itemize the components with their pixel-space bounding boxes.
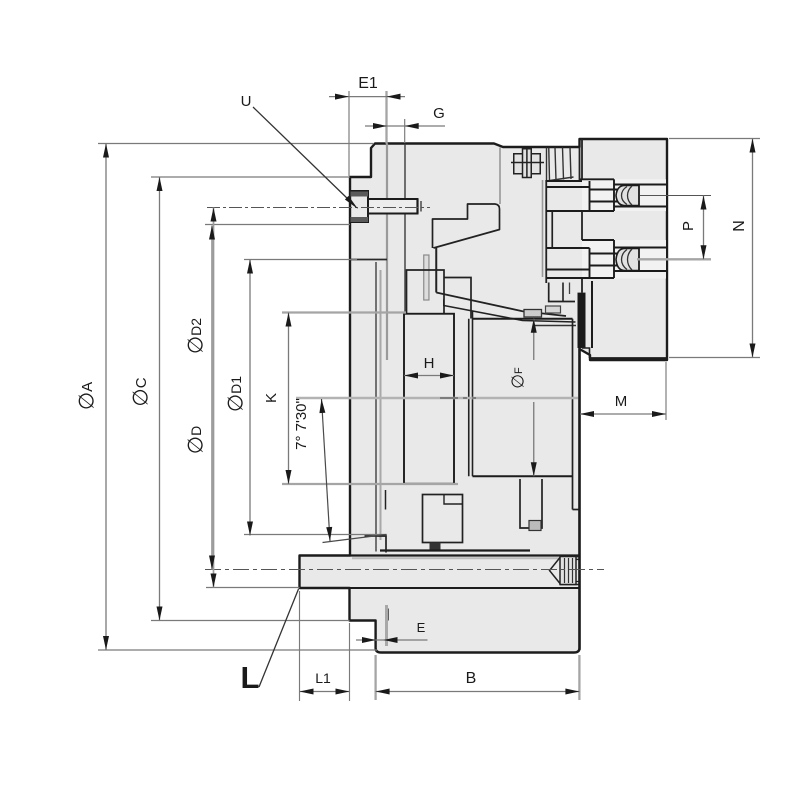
- jaw block face segments: [581, 139, 583, 179]
- gray heavy extension lines: [282, 91, 711, 700]
- svg-text:M: M: [615, 393, 628, 410]
- mount screw bore lines: [560, 556, 580, 558]
- spring pin slot: [424, 255, 429, 300]
- wedge notch upper: [433, 204, 500, 248]
- master jaw foot: [549, 283, 575, 302]
- svg-text:7° 7'30": 7° 7'30": [293, 398, 310, 450]
- lower guide rect: [423, 495, 463, 543]
- angle 7deg dim line: [322, 399, 331, 541]
- body back face inner line: [380, 549, 530, 551]
- jaw bottom step: [582, 348, 590, 358]
- front plate inner vertical line: [386, 144, 388, 361]
- serration lines top: [547, 148, 574, 182]
- grub screw cross: [511, 149, 544, 178]
- screw1 center ext: [640, 195, 711, 197]
- master jaw guide vertical: [435, 248, 437, 293]
- front hub vertical line gray: [375, 262, 377, 552]
- lower pin: [430, 543, 441, 552]
- screw U counterbore: [350, 191, 368, 222]
- wedge slant lower parallel: [444, 300, 576, 323]
- svg-text:N: N: [731, 220, 748, 232]
- mount counterbore marks: [576, 559, 580, 561]
- extension lines: [98, 91, 760, 701]
- front plate joint line: [404, 144, 406, 314]
- front joint gray line upper: [499, 148, 501, 205]
- flange center dash-dot: [205, 569, 604, 571]
- svg-text:P: P: [680, 221, 697, 231]
- chuck body silhouette: [300, 139, 668, 653]
- svg-text:∅A: ∅A: [76, 382, 99, 410]
- jaw screw 2 head: [616, 249, 639, 271]
- wedge slant upper: [436, 293, 566, 317]
- wedge small rect: [524, 310, 542, 318]
- wedge small rect 2: [546, 306, 561, 313]
- bore top edge: [473, 318, 573, 320]
- svg-text:G: G: [433, 105, 445, 122]
- jaw inner face line: [591, 281, 593, 348]
- bore right wall: [572, 319, 574, 510]
- phi D dim line: [211, 226, 213, 570]
- svg-text:B: B: [466, 670, 477, 687]
- body right face lower: [578, 347, 580, 650]
- svg-text:U: U: [241, 93, 252, 110]
- step below bore right: [573, 509, 580, 511]
- leader U: [253, 107, 350, 201]
- serrated interface bar: [578, 293, 586, 348]
- lower small rect: [520, 479, 542, 528]
- lower guide notch: [444, 495, 463, 505]
- piston H rect: [404, 314, 454, 484]
- wedge groove line: [535, 325, 576, 327]
- E gray ext bar: [385, 605, 388, 646]
- body right face upper: [579, 147, 581, 181]
- jaw channel 1 light fill: [582, 179, 666, 211]
- svg-text:E1: E1: [358, 75, 378, 92]
- master jaw base dark line: [545, 180, 547, 283]
- bore bottom edge: [473, 475, 573, 477]
- adapter bottom line: [350, 587, 580, 589]
- master jaw base gray line: [542, 180, 544, 277]
- back face line: [350, 554, 580, 556]
- dimension lines: [106, 97, 753, 692]
- svg-text:E: E: [417, 620, 426, 635]
- jaw channel 2 light fill: [582, 240, 666, 279]
- lower small insert: [529, 521, 541, 531]
- svg-text:K: K: [263, 393, 280, 403]
- mount screw head: [560, 557, 576, 585]
- phi D2 dim line: [213, 208, 215, 588]
- screw U tip cap: [416, 199, 418, 214]
- piston rod step: [407, 270, 445, 314]
- E slot black bar: [386, 609, 389, 621]
- svg-text:L: L: [241, 660, 260, 695]
- svg-text:L1: L1: [315, 670, 331, 686]
- jaw screw 1 head: [616, 186, 639, 206]
- main axis center line: [296, 397, 578, 400]
- lower corner step: [365, 536, 387, 553]
- jaw channel 1: [546, 179, 666, 211]
- mount screw cone tip: [550, 558, 561, 584]
- arrows: [103, 94, 756, 695]
- leader L: [259, 589, 299, 687]
- screw U shank: [368, 199, 418, 214]
- jaw channel 2: [546, 240, 666, 278]
- jaw bottom thick edge: [589, 357, 667, 360]
- chamber top line: [444, 278, 471, 319]
- front plate step line: [350, 259, 387, 261]
- svg-text:H: H: [424, 355, 435, 372]
- screw U center line: [207, 207, 430, 209]
- angle 7deg reference slant: [323, 535, 387, 543]
- bore left wall pair: [468, 319, 470, 477]
- master jaw between-rib face: [551, 212, 553, 249]
- svg-text:∅C: ∅C: [130, 377, 153, 406]
